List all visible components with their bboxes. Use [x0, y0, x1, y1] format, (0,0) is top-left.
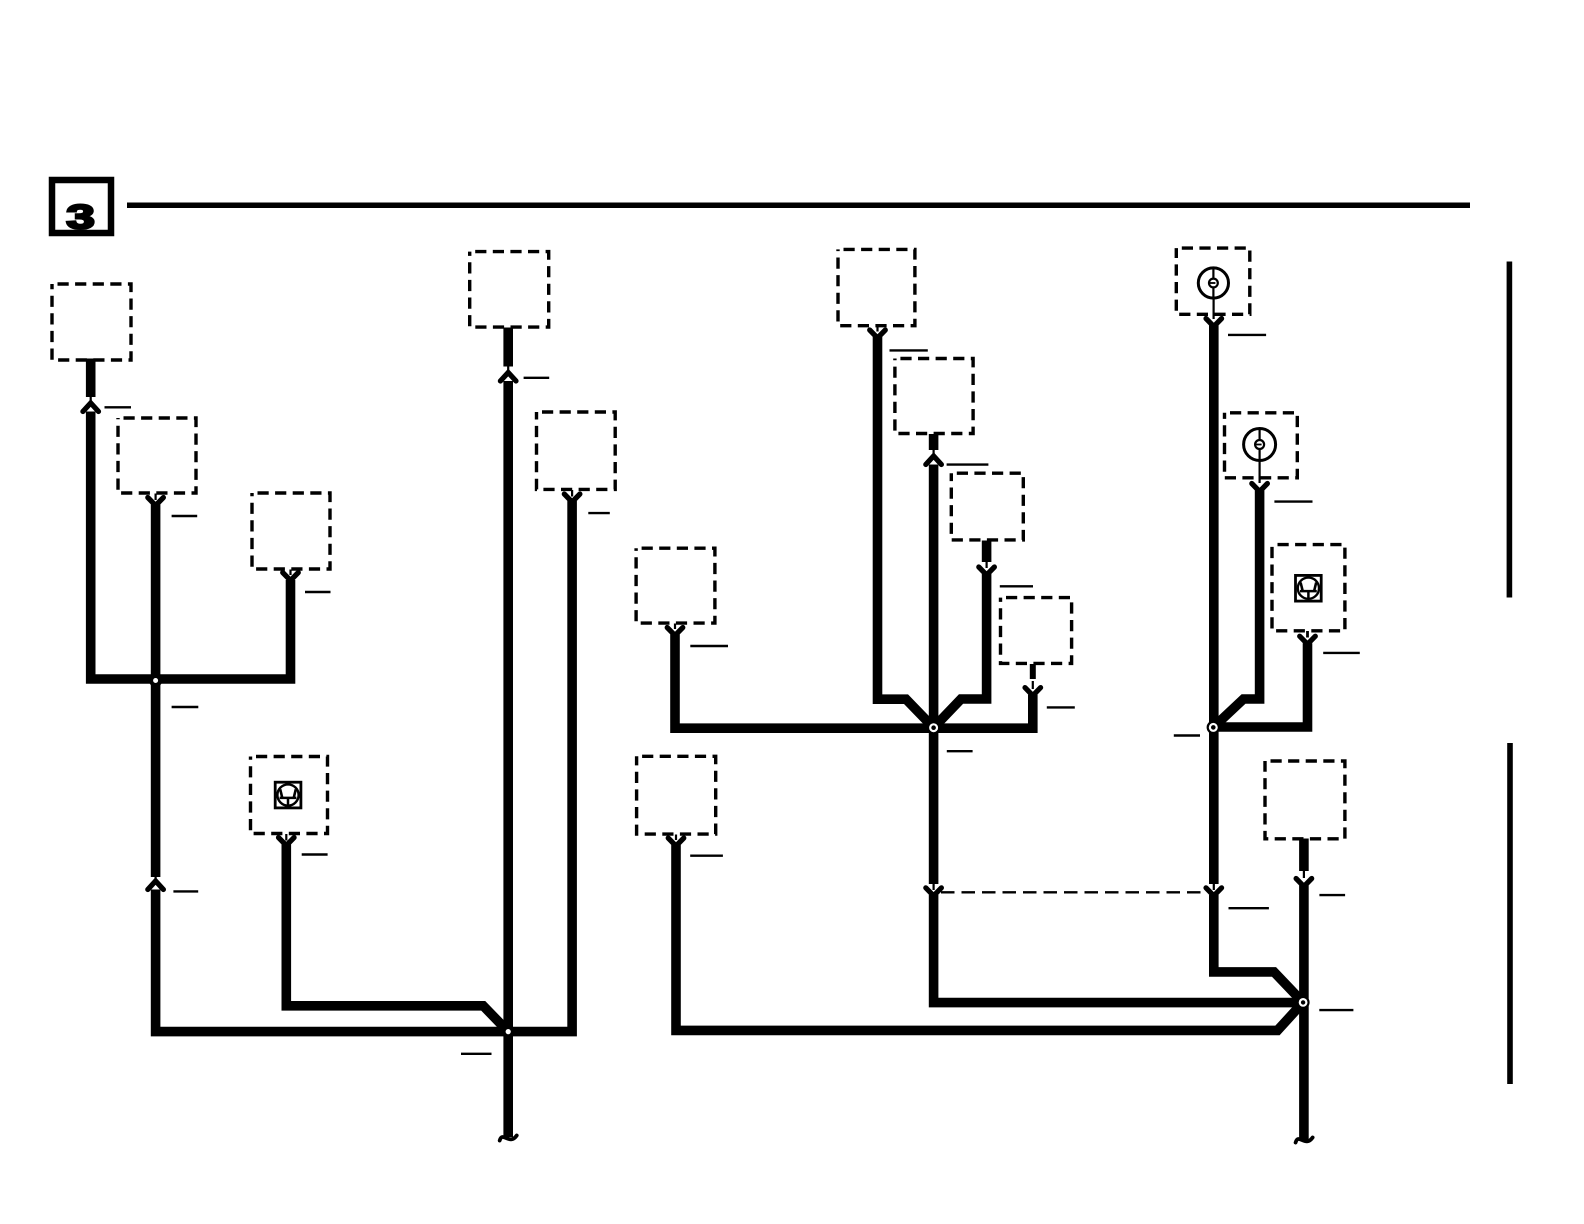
arrow up on wire A	[83, 403, 99, 412]
label tick wire M	[1228, 334, 1266, 336]
right margin bar upper	[1507, 262, 1513, 598]
wire E upper segment	[503, 328, 513, 367]
junction J5	[1297, 996, 1310, 1009]
label tick wire B	[172, 515, 198, 517]
wire G stub below box G	[674, 624, 676, 630]
connector box A	[52, 284, 131, 360]
connector box L	[1001, 598, 1072, 664]
connector box K	[951, 473, 1023, 540]
wire O to junction J4	[1213, 643, 1307, 727]
arrow up mid wire B	[148, 881, 164, 890]
connector box B	[118, 418, 196, 493]
wire A arrow lead	[90, 395, 92, 402]
label tick junction J5	[1319, 1009, 1353, 1011]
arrow lead on wire M at dashed link	[1213, 883, 1215, 890]
label tick wire J	[947, 463, 989, 465]
arrow down on wire C	[283, 573, 299, 581]
wire F to junction J2	[508, 501, 572, 1032]
wire O stub below box O	[1306, 631, 1309, 638]
wire K to junction J3	[934, 574, 987, 728]
label tick wire N	[1274, 500, 1312, 502]
label tick wire G	[690, 645, 728, 647]
wire A lower + bus bar + wire C lower	[91, 412, 291, 680]
wire P upper segment	[1299, 839, 1309, 872]
arrow down on wire L	[1025, 688, 1041, 696]
arrow down on wire I	[870, 330, 886, 338]
arrow down on wire N	[1252, 484, 1268, 492]
wire A upper segment	[86, 359, 96, 398]
wire N lamp lead	[1258, 461, 1260, 483]
label tick wire I	[890, 349, 928, 351]
header rule	[127, 203, 1470, 209]
wire L taper stub below box L	[1030, 664, 1036, 679]
label tick wire E	[524, 377, 550, 379]
arrow lead mid wire B	[155, 875, 157, 882]
svg-text:3: 3	[66, 199, 94, 237]
wire J lower segment to junction J5	[934, 895, 1304, 1003]
right margin bar lower	[1507, 743, 1513, 1084]
wire B stub below box B	[155, 494, 157, 501]
arrow up on wire E	[500, 373, 516, 382]
wire J arrow lead	[932, 449, 934, 456]
connector box P	[1265, 761, 1345, 839]
wire M lower segment to junction J5	[1214, 895, 1303, 1003]
wire K upper segment	[982, 541, 992, 563]
junction J1	[149, 674, 162, 687]
arrow up on wire J	[926, 456, 942, 465]
wire G to junction J3	[675, 635, 934, 729]
motor symbol in box D	[275, 782, 301, 808]
arrow down on wire F	[564, 494, 580, 502]
arrow down on wire O	[1300, 636, 1316, 644]
arrow down on wire J at dashed link	[926, 888, 942, 896]
wire D to junction J2	[286, 845, 508, 1032]
wire I stub below box I	[876, 326, 878, 332]
wire E long vertical through junction J2	[503, 381, 513, 1137]
label tick wire F	[588, 512, 610, 514]
wire B lower segment to junction J2	[156, 890, 509, 1032]
wire D stub below box D	[285, 834, 287, 841]
motor symbol in box O	[1296, 575, 1322, 601]
wire J upper segment	[929, 434, 939, 450]
label tick junction J3	[947, 750, 973, 752]
wire L arrow lead	[1032, 681, 1034, 689]
wire E arrow lead	[507, 365, 509, 372]
wire H stub below box H	[675, 835, 677, 841]
label tick junction J2	[461, 1053, 492, 1055]
label tick junction J1	[172, 706, 199, 708]
label tick wire H	[690, 855, 723, 857]
wire P arrow lead	[1303, 870, 1305, 878]
label tick wire P	[1319, 894, 1345, 896]
wire B upper segment through junction	[151, 505, 161, 878]
label tick wire A	[105, 406, 132, 408]
arrow down on wire M below box M	[1206, 319, 1222, 327]
connector box E	[470, 252, 549, 328]
page number box 3	[52, 180, 111, 236]
wire H to junction J5	[676, 845, 1303, 1030]
connector box J	[895, 359, 973, 434]
wire M through junction J4 down to dashed link	[1209, 326, 1219, 885]
wire I to junction J3	[878, 337, 934, 728]
lamp symbol in box N	[1244, 429, 1276, 462]
arrow down on wire G	[667, 628, 683, 636]
lamp symbol in box M	[1198, 268, 1228, 319]
wire N to junction J4	[1213, 491, 1259, 728]
connector box O (motor)	[1272, 545, 1345, 631]
label tick wire O	[1323, 652, 1360, 654]
connector box D (motor)	[251, 757, 328, 834]
junction J3	[927, 721, 941, 735]
connector box N (lamp)	[1225, 413, 1298, 478]
label tick wire K	[1000, 585, 1033, 587]
label tick wire L	[1047, 706, 1075, 708]
connector box G	[636, 548, 715, 623]
arrow lead on wire J at dashed link	[932, 883, 934, 890]
connector box H	[637, 756, 716, 834]
arrow down on wire B	[148, 498, 164, 506]
junction J4	[1207, 721, 1220, 734]
wire J through junction J3 down to dashed link	[929, 465, 939, 885]
label tick mid arrow wire B	[173, 890, 198, 892]
arrow down on wire H	[668, 838, 684, 846]
label tick wire D	[302, 853, 328, 855]
connector box C	[252, 493, 330, 569]
connector box F	[537, 412, 616, 489]
junction J2	[502, 1025, 515, 1038]
continuation squiggle at bottom of wire P	[1296, 1138, 1313, 1143]
label tick dashed link right	[1229, 907, 1269, 909]
wire L to junction J3	[934, 695, 1033, 729]
arrow down on wire P	[1296, 879, 1312, 887]
connector box I	[838, 249, 915, 325]
arrow down on wire M at dashed link	[1206, 888, 1222, 896]
wire C stub below box C	[289, 570, 291, 576]
wire P through junction J5 to bottom	[1299, 886, 1309, 1141]
label tick junction J4	[1174, 734, 1200, 736]
wire K arrow lead	[985, 561, 987, 568]
wire F stub below box F	[571, 490, 573, 497]
label tick wire C	[305, 591, 331, 593]
connector box M (lamp)	[1176, 248, 1250, 314]
dashed link wire between wire J and wire M	[941, 891, 1206, 893]
continuation squiggle at bottom of wire E	[500, 1136, 517, 1141]
arrow down on wire D	[279, 838, 295, 846]
arrow down on wire K	[979, 567, 995, 575]
